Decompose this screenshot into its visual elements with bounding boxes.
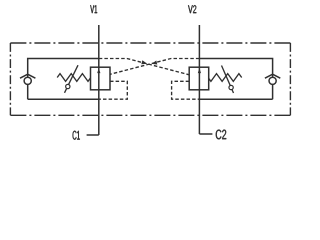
enclosure border top (dash-dot) [10,42,290,44]
wire: right loop bottom [199,98,272,100]
enclosure border right (dash-dot) [289,43,291,115]
port V1 line [98,25,100,67]
enclosure border left (dash-dot) [9,43,11,115]
flow path (left valve) [98,67,100,90]
wire: left loop (top + left leg) [28,59,99,100]
enclosure border bottom (dash-dot) [10,114,290,116]
spring (left valve) [57,74,90,82]
adjustment arrow shaft (left valve) [65,65,79,93]
adjustment arrow shaft (right valve) [222,66,234,94]
wire: left loop bottom [28,98,99,100]
port C2 line [198,90,200,134]
flow arrow (right valve) [198,68,201,73]
crossover arrowhead (right-pointing) [141,60,147,64]
flow path (right valve) [198,67,200,90]
check valve CV2 seat [265,74,280,78]
check valve CV1 ball [24,77,31,84]
wire: right loop (top + right leg) [199,59,272,100]
check valve CV2 ball [269,77,276,84]
port C2 tick [199,133,212,135]
spring (right valve) [208,74,241,82]
port V2 label [188,5,196,13]
port C1 tick [87,134,99,136]
port V1 label [90,5,97,13]
port C1 label [73,131,80,140]
pilot rect (right valve, from C2) [172,81,200,99]
port V2 line [198,25,200,67]
crossover arrowhead (left-pointing) [152,61,158,65]
pilot rect (left valve, from C1) [99,81,128,99]
pilot line from V1 to right valve (crossover) [99,59,189,75]
pilot line from V2 to left valve (crossover) [110,59,199,75]
adjustment knob (right valve) [229,85,233,89]
adjustment knob (left valve) [66,84,70,88]
valve body (right) [189,67,209,90]
port C1 line [98,90,100,135]
port C2 label [216,130,226,140]
flow arrow (left valve) [97,68,100,73]
valve body (left) [91,67,111,90]
check valve CV1 seat [20,74,35,78]
